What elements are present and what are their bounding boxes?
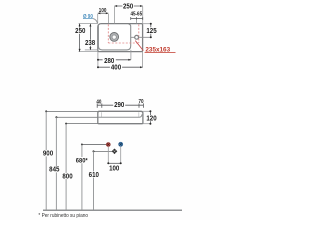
top edge extension left (for 250)	[79, 23, 98, 25]
faucet hole (plan)	[135, 35, 139, 39]
svg-text:Ø 90: Ø 90	[83, 14, 93, 20]
top edge extension right (for 125)	[143, 23, 152, 25]
svg-text:125: 125	[146, 28, 157, 35]
height line 845 (to underside)	[48, 116, 97, 209]
red leader to cutout	[135, 41, 143, 51]
svg-text:900: 900	[43, 150, 54, 157]
svg-text:100: 100	[99, 8, 107, 14]
bowl side seams (front view)	[102, 112, 139, 117]
waste drain (black diamond)	[112, 149, 118, 155]
svg-text:45-65: 45-65	[130, 11, 142, 17]
bottom extension right (for 120)	[143, 123, 151, 125]
dimension 250 (left)	[75, 24, 86, 52]
svg-text:40: 40	[96, 99, 101, 105]
label diameter 90 (blue)	[83, 14, 97, 24]
svg-text:120: 120	[146, 115, 157, 122]
dimension 100 (supply spacing)	[107, 147, 121, 173]
bottom edge extension left (for 250)	[79, 51, 98, 53]
dimension 250 (top right)	[115, 3, 143, 24]
height line 680* (to water supply)	[75, 144, 106, 210]
label 290	[113, 102, 125, 109]
dimension 400 (bottom overall)	[97, 52, 143, 72]
dimension 120 (front height)	[146, 110, 158, 124]
drain (plan)	[110, 33, 119, 42]
svg-text:100: 100	[109, 165, 120, 172]
faucet centre tick to rim	[136, 20, 138, 24]
basin bottom extension line (for 238)	[85, 49, 99, 51]
cutout 235x163 (red dashed)	[108, 24, 139, 43]
dimension 238 (left inner)	[84, 24, 96, 50]
red underline for 235x163	[145, 52, 176, 54]
svg-text:400: 400	[111, 64, 122, 71]
svg-text:250: 250	[123, 3, 134, 10]
hot water supply (red)	[106, 143, 110, 147]
basin front outline	[98, 111, 143, 123]
faucet hole line (125 reference)	[131, 36, 152, 38]
front top dimension line 40/290/70	[97, 103, 143, 107]
svg-text:610: 610	[89, 172, 100, 179]
dimension 100 (top left)	[98, 8, 109, 23]
cold water supply (blue)	[119, 142, 123, 146]
svg-text:845: 845	[49, 166, 60, 173]
svg-text:238: 238	[85, 40, 96, 47]
height line 900 (to rim top)	[42, 110, 98, 209]
basin front inner line	[98, 114, 142, 117]
svg-text:70: 70	[138, 99, 143, 105]
svg-text:680*: 680*	[76, 157, 88, 164]
svg-text:800: 800	[62, 173, 73, 180]
sink outline (plan, 400x250)	[98, 24, 143, 52]
floor line	[43, 209, 182, 211]
svg-text:250: 250	[75, 28, 86, 35]
svg-text:* Per rubinetto su piano: * Per rubinetto su piano	[38, 213, 88, 219]
dimension 125 (right)	[146, 23, 157, 39]
dimension 280 (bottom inner)	[97, 50, 131, 67]
dimension 45-65 (faucet range)	[130, 11, 142, 19]
height line 800 (to basin bottom)	[62, 123, 98, 210]
height line 610 (to drain)	[89, 150, 112, 209]
rim top extension right (for 120)	[143, 110, 151, 112]
svg-text:290: 290	[114, 102, 125, 109]
basin bowl (plan inner)	[98, 24, 130, 50]
